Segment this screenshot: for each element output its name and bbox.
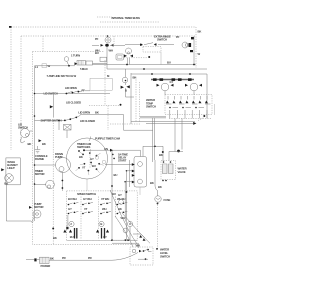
svg-text:BK: BK	[42, 142, 46, 146]
svg-text:BK: BK	[79, 155, 83, 159]
svg-text:BU WH: BU WH	[68, 197, 77, 201]
svg-text:PURPLE TIMER CAM: PURPLE TIMER CAM	[95, 137, 121, 141]
svg-text:SWITCHES: SWITCHES	[77, 145, 90, 149]
svg-text:SPEED SWITCH: SPEED SWITCH	[77, 192, 96, 196]
svg-text:BK: BK	[4, 181, 8, 185]
svg-text:PR: PR	[62, 256, 66, 260]
svg-text:WH: WH	[102, 207, 106, 211]
svg-text:INTERNAL TIMER BUSS: INTERNAL TIMER BUSS	[112, 16, 141, 20]
svg-text:PUMP: PUMP	[55, 155, 63, 159]
svg-text:1 TURN: 1 TURN	[71, 54, 80, 58]
svg-text:BU: BU	[92, 164, 96, 168]
svg-text:BK: BK	[53, 236, 57, 240]
svg-text:BU: BU	[112, 192, 116, 196]
svg-text:GY: GY	[68, 207, 72, 211]
svg-text:B: B	[100, 222, 102, 226]
svg-text:PF: PF	[95, 37, 99, 41]
svg-text:BU: BU	[70, 235, 74, 239]
svg-text:LID OPEN: LID OPEN	[78, 111, 90, 115]
svg-text:BK: BK	[133, 76, 137, 80]
svg-text:VT: VT	[84, 207, 88, 211]
svg-text:GY WH: GY WH	[83, 197, 92, 201]
svg-text:SWITCH: SWITCH	[146, 105, 156, 109]
svg-text:START: START	[118, 159, 127, 163]
svg-text:GY: GY	[170, 80, 174, 84]
svg-text:FUSE: FUSE	[164, 198, 171, 202]
svg-text:MOTOR: MOTOR	[34, 205, 44, 209]
svg-text:BU: BU	[114, 173, 118, 177]
svg-text:MOTOR: MOTOR	[35, 172, 45, 176]
svg-text:BU: BU	[167, 61, 171, 65]
svg-text:FRAME: FRAME	[35, 157, 44, 161]
svg-text:SWITCH: SWITCH	[160, 254, 170, 258]
svg-text:LIGHT: LIGHT	[7, 166, 15, 170]
svg-text:BK: BK	[95, 111, 99, 115]
svg-text:LID OPEN: LID OPEN	[65, 86, 77, 90]
svg-text:BK: BK	[158, 185, 162, 189]
svg-text:WH: WH	[109, 49, 113, 53]
svg-text:5 MAX: 5 MAX	[80, 67, 88, 71]
svg-text:POWER: POWER	[41, 264, 51, 268]
svg-text:GY: GY	[90, 157, 94, 161]
svg-text:BU: BU	[95, 51, 99, 55]
svg-text:WH: WH	[136, 244, 140, 248]
svg-text:BK: BK	[150, 181, 154, 185]
svg-text:GY: GY	[103, 235, 107, 239]
svg-text:VT WH: VT WH	[101, 197, 109, 201]
svg-text:PR: PR	[88, 256, 92, 260]
svg-text:BK: BK	[28, 142, 32, 146]
svg-text:LID CLOSED: LID CLOSED	[80, 119, 95, 123]
svg-text:PF: PF	[82, 88, 86, 92]
svg-text:B: B	[125, 89, 127, 93]
svg-text:7 AMP LINE SW TO CH W: 7 AMP LINE SW TO CH W	[47, 74, 77, 78]
svg-text:BK: BK	[50, 257, 54, 261]
svg-text:PF: PF	[176, 35, 180, 39]
svg-text:WH BU: WH BU	[117, 197, 126, 201]
svg-text:SWITCH: SWITCH	[157, 38, 167, 42]
svg-text:BK: BK	[159, 153, 163, 157]
svg-text:BK: BK	[198, 30, 202, 34]
svg-text:LID CLOSED: LID CLOSED	[66, 100, 81, 104]
svg-text:VT: VT	[82, 166, 86, 170]
svg-text:VALVE: VALVE	[178, 170, 186, 174]
